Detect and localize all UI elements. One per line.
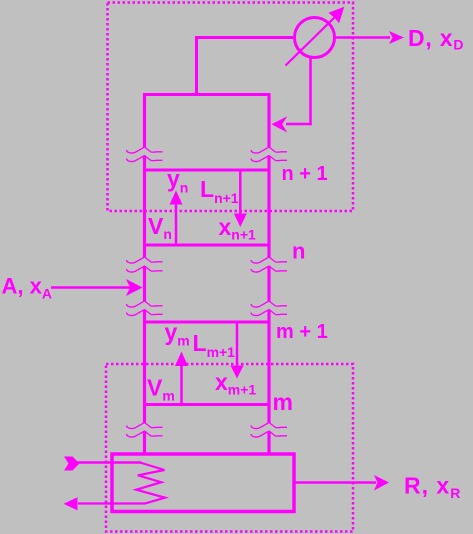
- break tilde right B1: [251, 257, 287, 263]
- svg-text:Vn: Vn: [148, 213, 172, 242]
- column right wall seg4: [267, 310, 270, 424]
- break tilde left C2: [127, 310, 163, 316]
- column right wall seg2: [267, 156, 270, 258]
- steam inlet chevron: [64, 457, 80, 471]
- svg-text:A, xA: A, xA: [2, 274, 52, 302]
- break tilde left B1: [127, 257, 163, 263]
- break tilde right D2: [251, 431, 287, 437]
- break tilde left A2: [127, 156, 163, 162]
- feed line: [51, 286, 131, 289]
- wire condenser drop line: [309, 56, 312, 125]
- break tilde right D1: [251, 423, 287, 429]
- break tilde left A1: [127, 147, 163, 153]
- break tilde left D2: [127, 431, 163, 437]
- column right wall seg1: [267, 93, 270, 148]
- condenser circle: [295, 18, 335, 58]
- svg-text:Vm: Vm: [147, 375, 175, 404]
- column left wall seg2: [143, 156, 146, 258]
- svg-text:m: m: [273, 389, 293, 415]
- svg-text:n + 1: n + 1: [282, 163, 328, 185]
- reboiler shell: [112, 454, 294, 512]
- liquid arrow line section n: [239, 171, 242, 214]
- bottoms arrowhead: [374, 475, 389, 491]
- tray n+1: [143, 169, 271, 172]
- column top edge: [143, 93, 271, 96]
- tray m+1: [143, 321, 271, 324]
- break tilde right B2: [251, 266, 287, 272]
- feed arrowhead: [126, 279, 143, 296]
- break tilde left B2: [127, 266, 163, 272]
- vapor arrowhead section n: [170, 191, 183, 205]
- column left wall seg3: [143, 266, 146, 302]
- reflux arrowhead: [271, 116, 287, 132]
- column right wall seg3: [267, 266, 270, 302]
- column left wall seg5: [143, 431, 146, 455]
- vapor arrow line section m: [180, 365, 183, 404]
- condenser diagonal arrowhead: [328, 7, 344, 24]
- svg-text:Lm+1: Lm+1: [193, 330, 236, 360]
- break tilde left C1: [127, 301, 163, 307]
- svg-text:D, xD: D, xD: [408, 25, 464, 53]
- steam inlet line: [75, 461, 141, 464]
- column right wall seg5: [267, 431, 270, 455]
- svg-text:Ln+1: Ln+1: [200, 176, 239, 206]
- liquid arrowhead section m: [231, 366, 244, 379]
- reboiler heating coil zigzag: [78, 463, 165, 504]
- column left wall seg1: [143, 93, 146, 148]
- liquid arrowhead section n: [234, 214, 247, 228]
- break tilde right A2: [251, 156, 287, 162]
- wire reflux return horizontal: [286, 123, 312, 126]
- enclosure top dotted box: [108, 3, 354, 212]
- tray m: [143, 403, 271, 406]
- enclosure bottom dotted box: [106, 364, 353, 532]
- break tilde right C2: [251, 310, 287, 316]
- svg-text:n: n: [292, 238, 305, 263]
- svg-text:m + 1: m + 1: [276, 321, 328, 343]
- wire distillate line: [335, 36, 390, 39]
- wire riser from column top: [195, 37, 198, 96]
- tray n: [143, 244, 271, 247]
- break tilde right A1: [251, 147, 287, 153]
- break tilde right C1: [251, 301, 287, 307]
- vapor arrowhead section m: [175, 352, 188, 367]
- condensate outlet arrowhead: [64, 497, 78, 510]
- break tilde left D1: [127, 423, 163, 429]
- distillate arrowhead: [389, 31, 404, 44]
- condenser diagonal line: [286, 16, 337, 66]
- svg-text:R, xR: R, xR: [404, 473, 461, 502]
- vapor arrow line section n: [175, 203, 178, 244]
- liquid arrow line section m: [236, 323, 239, 367]
- wire top horizontal to condenser: [195, 36, 295, 39]
- bottoms line: [296, 481, 377, 484]
- column left wall seg4: [143, 310, 146, 424]
